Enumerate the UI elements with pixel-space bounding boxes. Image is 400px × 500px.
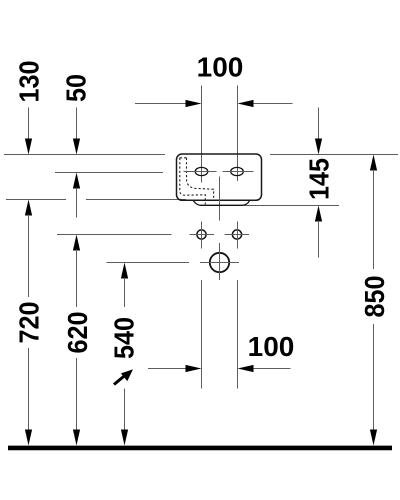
dimension 100 bottom left tail — [148, 368, 187, 370]
dimension 50 line — [76, 108, 78, 140]
svg-text:130: 130 — [13, 60, 45, 102]
right fixing hole crosshair vertical — [237, 222, 239, 249]
dimension 145 arrowhead down — [315, 139, 322, 155]
svg-text:100: 100 — [197, 52, 244, 83]
dimension 100 bottom left arrowhead — [186, 365, 202, 372]
dimension 620 arrowhead down at floor — [73, 430, 80, 446]
dimension 540 diagonal pointer arrowhead — [121, 369, 133, 381]
line D (620 level, fixing holes) — [57, 234, 172, 236]
dimension 50 arrowhead down — [73, 139, 80, 155]
dimension 720 lower line — [28, 348, 30, 431]
dimension 100 bottom right tail — [254, 368, 291, 370]
dimension 130 arrowhead down — [25, 139, 32, 155]
left fixing hole circle — [197, 230, 206, 239]
wall reference line A (850 level) right segment — [270, 154, 398, 156]
dimension 100 top right tail — [253, 103, 293, 105]
left tap hole ellipse — [195, 167, 208, 175]
dimension 850 arrowhead up at wall line — [370, 155, 377, 171]
dimension 620 upper line — [76, 250, 78, 308]
drain crosshair horizontal — [200, 262, 239, 264]
dimension 100 top right extension line — [237, 86, 239, 182]
right fixing hole circle — [232, 230, 241, 239]
dimension 100 top left arrowhead — [186, 100, 202, 107]
dimension 50 arrowhead up — [73, 173, 80, 189]
dimension 850 upper line — [373, 170, 375, 270]
line B (720 level) left part — [6, 199, 66, 201]
svg-text:850: 850 — [359, 275, 391, 317]
dimension 720 upper line — [28, 215, 30, 298]
siphon cover tab — [194, 201, 250, 206]
dimension 540 arrowhead down at floor — [121, 430, 128, 446]
dimension 100 top right arrowhead — [238, 100, 254, 107]
left fixing hole crosshair horizontal — [190, 234, 215, 236]
dimension 145 lower tail — [318, 221, 320, 258]
floor line — [8, 446, 392, 451]
svg-text:145: 145 — [303, 158, 335, 200]
svg-text:100: 100 — [248, 331, 295, 362]
right tap hole crosshair horizontal — [223, 171, 254, 173]
dimension 540 diagonal pointer shaft — [114, 375, 126, 385]
dimension 100 top left extension line — [201, 86, 203, 183]
dimension 100 bottom right extension line — [237, 280, 239, 389]
dimension 850 lower line — [373, 324, 375, 431]
right tap hole ellipse — [231, 167, 244, 175]
left tap hole crosshair horizontal — [184, 171, 217, 173]
svg-text:620: 620 — [62, 311, 94, 353]
wall reference line A (850 level) left segment — [4, 154, 165, 156]
dimension 720 arrowhead up — [25, 200, 32, 216]
dimension 540 arrowhead up — [121, 263, 128, 279]
line E (540 level, drain) — [107, 262, 190, 264]
dimension 50 lower tail — [76, 188, 78, 218]
dimension 130 line — [28, 108, 30, 140]
dimension 540 upper line — [124, 278, 126, 308]
dimension 620 lower line — [76, 358, 78, 431]
line C (800 level, 50 below rim) — [55, 172, 163, 174]
drain circle — [210, 253, 229, 272]
line F (bottom of basin, 145 below rim) — [244, 205, 339, 207]
dimension 850 arrowhead down at floor — [370, 430, 377, 446]
dimension 100 top left tail — [135, 103, 187, 105]
dimension 145 arrowhead up — [315, 206, 322, 222]
dimension 540 lower line — [124, 389, 126, 431]
line B (720 level) right part — [86, 199, 186, 201]
basin centre axis line — [219, 177, 221, 221]
dimension 620 arrowhead up — [73, 235, 80, 251]
dimension 100 bottom right arrowhead — [238, 365, 254, 372]
dimension 720 arrowhead down at floor — [25, 430, 32, 446]
basin outline — [177, 154, 262, 200]
bowl section outer dashed line — [180, 158, 206, 205]
drain crosshair vertical — [219, 243, 221, 280]
left fixing hole crosshair vertical — [201, 222, 203, 249]
svg-text:720: 720 — [13, 301, 45, 343]
dimension 100 bottom left extension line — [201, 280, 203, 389]
bowl section inner dashed line — [187, 158, 214, 200]
dimension 145 upper line — [318, 108, 320, 140]
svg-text:50: 50 — [60, 74, 92, 102]
right fixing hole crosshair horizontal — [225, 234, 250, 236]
svg-text:540: 540 — [108, 317, 140, 359]
